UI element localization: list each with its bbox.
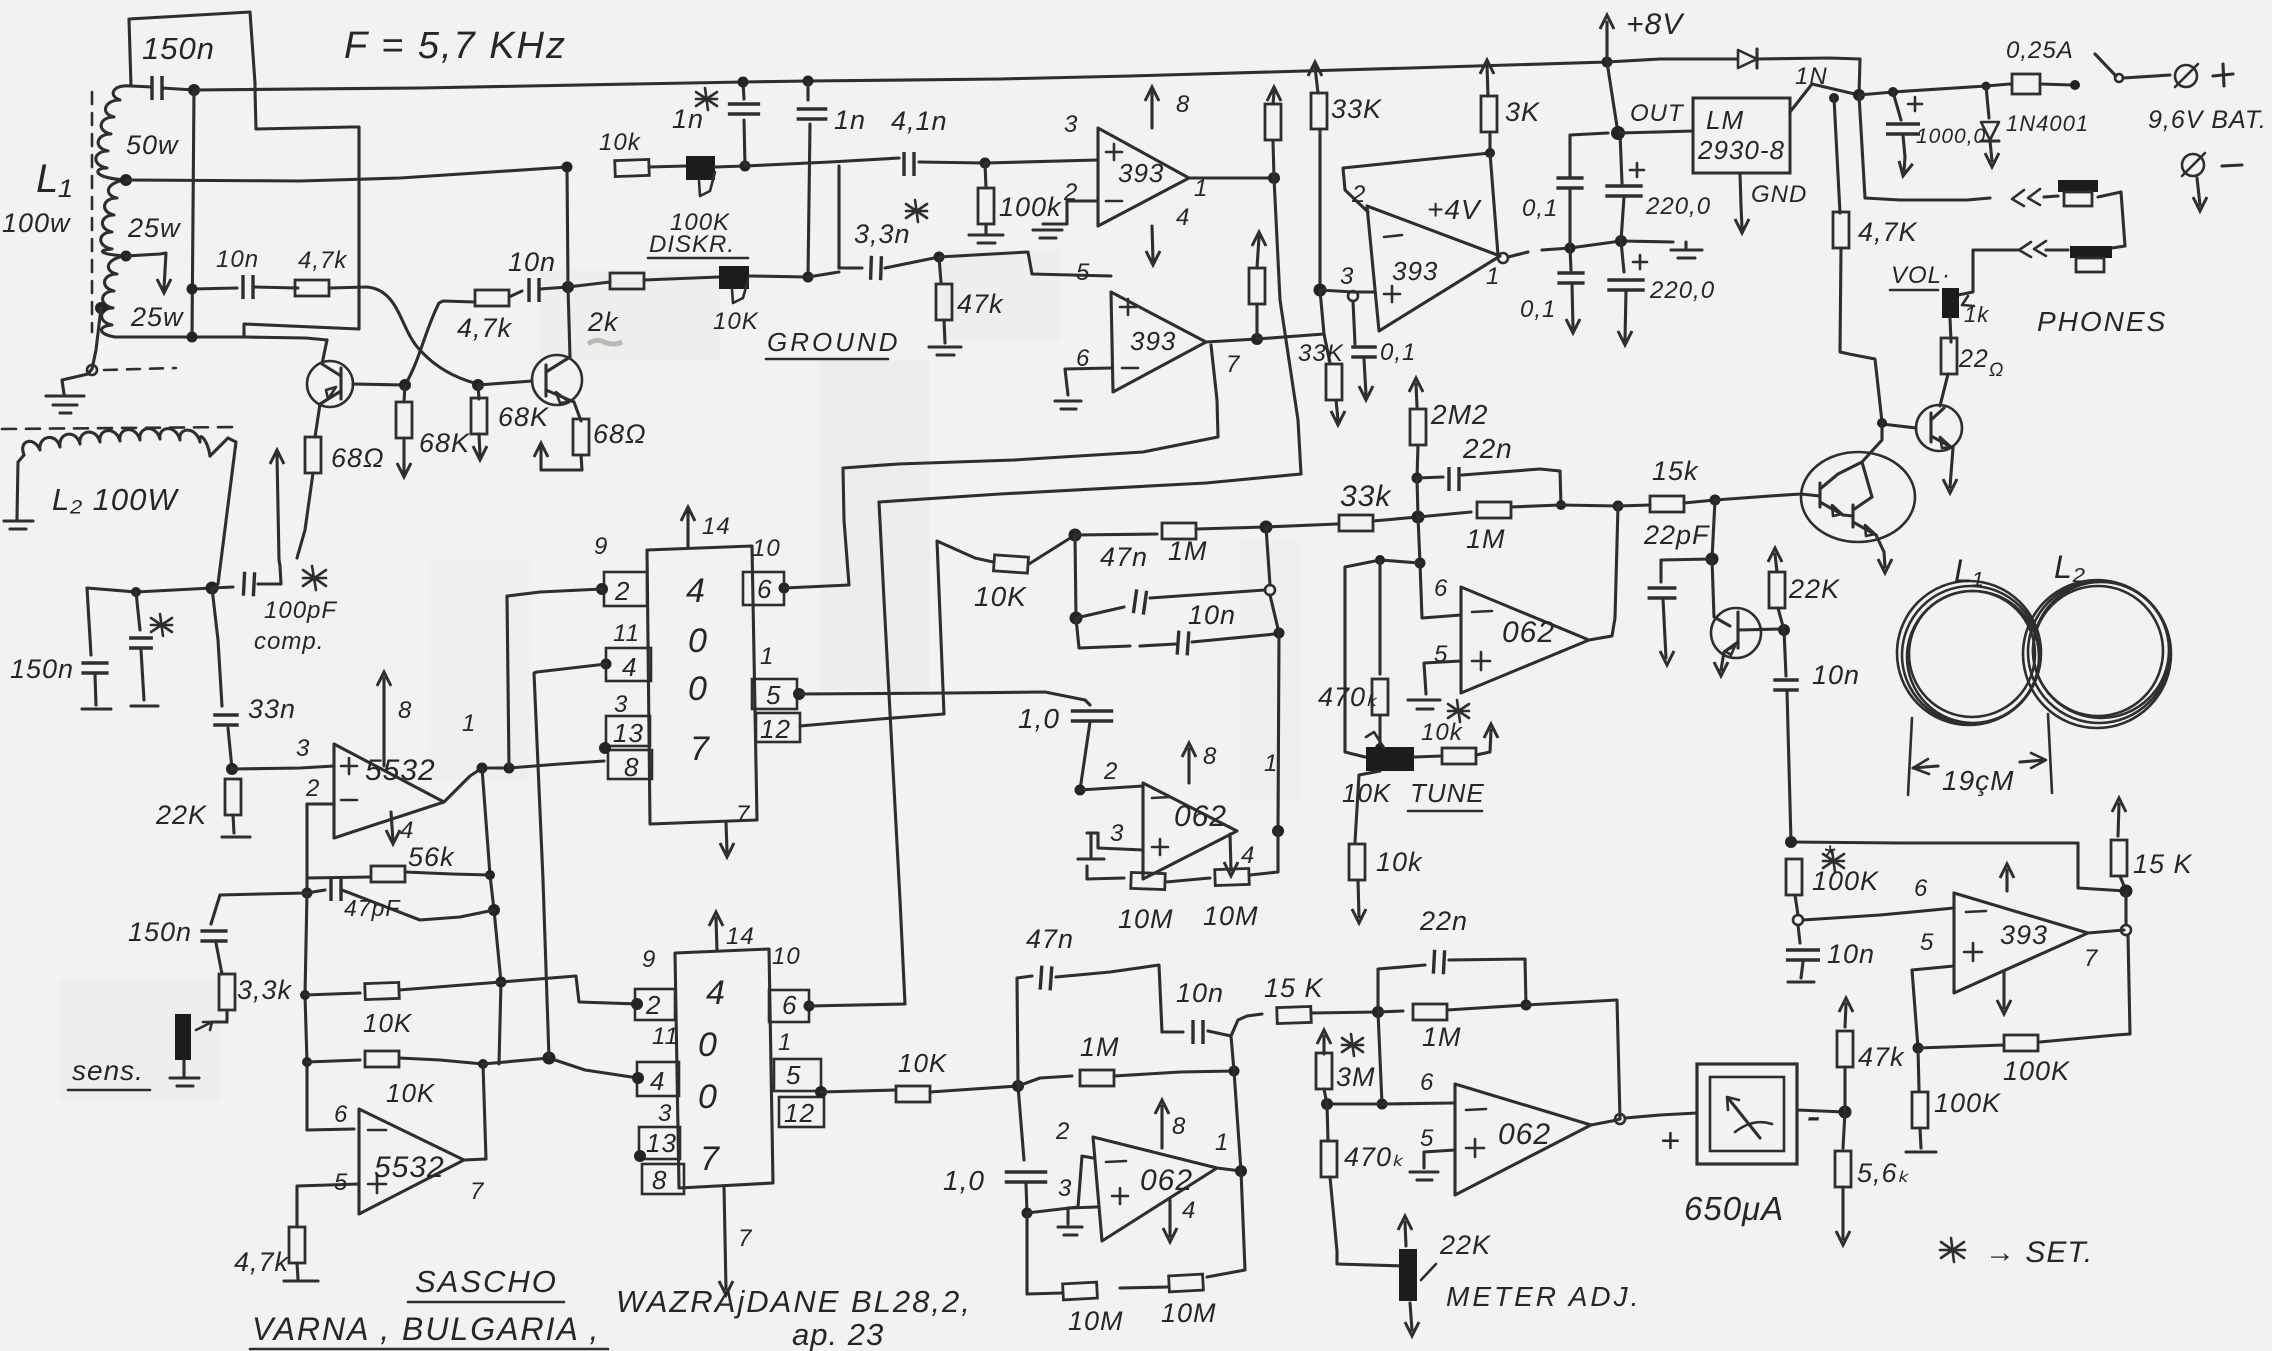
svg-text:7: 7 — [470, 1178, 485, 1205]
wire 3,3n row to U2 +in — [939, 252, 1111, 276]
svg-text:2: 2 — [1055, 1118, 1070, 1145]
resistor 470K (meter path) — [1321, 1104, 1403, 1266]
node coil lower tap — [95, 302, 107, 314]
op-amp U2 393 — [1111, 292, 1206, 392]
svg-text:100pF: 100pF — [264, 597, 337, 624]
wire 10K to node — [930, 1086, 1018, 1092]
svg-text:5: 5 — [334, 1169, 348, 1196]
svg-text:100K: 100K — [1934, 1088, 2001, 1118]
svg-text:22pF: 22pF — [1643, 520, 1710, 550]
capacitor 10n (bottom cell) — [1162, 1020, 1231, 1044]
wire Q2 node down to Q2 — [568, 287, 570, 357]
svg-text:5532: 5532 — [374, 1151, 445, 1184]
svg-text:3: 3 — [1110, 820, 1124, 847]
potentiometer VOL 1k — [1942, 288, 1974, 342]
svg-text:6: 6 — [1434, 575, 1448, 602]
svg-text:6: 6 — [782, 990, 797, 1020]
op-amp 062 (third) — [1093, 1137, 1217, 1241]
svg-text:3: 3 — [296, 735, 310, 762]
wire 2k GROUND row — [568, 282, 610, 287]
svg-text:15 K: 15 K — [2133, 849, 2193, 879]
svg-text:3,3k: 3,3k — [237, 975, 293, 1005]
svg-text:220,0: 220,0 — [1645, 193, 1711, 220]
svg-text:68K: 68K — [498, 402, 549, 432]
wire 3K to output — [1490, 153, 1498, 255]
wire output node 393-3 — [2088, 930, 2124, 933]
svg-text:6: 6 — [1420, 1069, 1434, 1096]
resistor 10K (row 1) — [305, 982, 501, 1000]
svg-text:33K: 33K — [1331, 94, 1382, 124]
svg-text:F = 5,7 KHz: F = 5,7 KHz — [344, 25, 567, 67]
svg-text:7: 7 — [1226, 351, 1241, 378]
node 5532-1 pin3 — [226, 763, 238, 775]
393-3 pin8 arrow — [2000, 864, 2014, 891]
svg-text:393: 393 — [1392, 256, 1438, 286]
capacitor 1,0 (top cell) — [1071, 700, 1114, 796]
svg-text:68Ω: 68Ω — [593, 419, 647, 449]
svg-text:GND: GND — [1751, 181, 1807, 208]
svg-text:15 K: 15 K — [1264, 973, 1324, 1003]
wire U2 out to 33K node — [1257, 334, 1324, 339]
resistor 10k (to supply from TUNE) — [1442, 724, 1498, 764]
node Q1 base junction — [399, 379, 411, 391]
transistor Q4 — [1711, 559, 1783, 676]
wire comp row — [87, 588, 212, 592]
dimension 19cM — [1908, 714, 2052, 795]
svg-text:0: 0 — [688, 622, 708, 660]
svg-text:100K: 100K — [2003, 1056, 2070, 1086]
svg-text:14: 14 — [702, 513, 731, 540]
node IN junction — [1853, 89, 1865, 101]
svg-text:1: 1 — [1264, 750, 1278, 777]
capacitor 150n (left leg) — [81, 588, 111, 709]
wire output chain down — [482, 768, 501, 1064]
resistor 4,7K (phones bias) — [1833, 98, 1882, 422]
wire 062-4 pin6 — [1327, 1103, 1453, 1104]
resistor 3M — [1316, 1030, 1332, 1104]
node +8V junction — [1602, 57, 1613, 68]
diode 1N4001 — [1981, 86, 1999, 167]
resistor 1M (top cell) — [1075, 523, 1266, 539]
svg-text:150n: 150n — [10, 654, 74, 684]
resistor 100K* — [1786, 859, 1803, 925]
svg-text:1M: 1M — [1080, 1032, 1120, 1062]
svg-text:L₂: L₂ — [2054, 549, 2086, 585]
svg-text:062: 062 — [1502, 616, 1555, 649]
svg-text:68K: 68K — [419, 428, 470, 458]
svg-text:11: 11 — [613, 620, 640, 647]
svg-text:1000,0: 1000,0 — [1916, 125, 1986, 148]
4007-1 pin13 pin8 boxes — [599, 716, 652, 779]
wire Q1 base to node — [353, 384, 405, 385]
svg-text:19çM: 19çM — [1942, 765, 2014, 796]
resistor 33k (second stage) — [1266, 515, 1418, 531]
svg-text:9,6V BAT.: 9,6V BAT. — [2148, 106, 2267, 134]
wire 062-3 left column — [1018, 1078, 1040, 1086]
svg-text:+8V: +8V — [1626, 8, 1685, 41]
svg-text:GROUND: GROUND — [767, 327, 901, 357]
wire 5532-2 output — [464, 1159, 486, 1160]
svg-text:2k: 2k — [587, 307, 619, 337]
fuse 0,25A — [2012, 74, 2080, 94]
svg-text:6: 6 — [334, 1101, 348, 1128]
svg-text:4: 4 — [650, 1066, 665, 1096]
svg-text:47n: 47n — [1026, 924, 1074, 954]
IC 4007 (first) — [647, 507, 757, 857]
wire feedback top right (y843) — [1791, 842, 2126, 891]
capacitor 10n (meter filter) — [1786, 925, 1820, 982]
svg-text:393: 393 — [2000, 920, 2048, 950]
svg-text:1k: 1k — [1964, 302, 1989, 327]
IC 4007 (second) — [675, 912, 773, 1295]
svg-text:47k: 47k — [1858, 1042, 1905, 1072]
resistor 4,7k (first) — [254, 280, 329, 296]
svg-text:4: 4 — [686, 572, 706, 610]
svg-text:4,7k: 4,7k — [298, 247, 348, 274]
capacitor 100pF comp — [212, 566, 281, 596]
U1 pin4 arrow — [1146, 226, 1160, 265]
4007-1 pin4 box — [601, 648, 652, 681]
wire DISKR bus drop to 3,3n row — [837, 166, 840, 268]
arrow up (supply) at Q1 emitter — [270, 450, 284, 560]
svg-text:5532: 5532 — [365, 754, 436, 787]
4007-2 pin4 box — [632, 1062, 679, 1096]
wire 5532-1 output row — [444, 761, 604, 802]
wire 062-1 pin2 — [1080, 786, 1143, 790]
resistor 68K (first) — [396, 385, 412, 477]
wire tap1 bus (to 10k and DISKR) — [126, 167, 567, 181]
svg-text:22n: 22n — [1419, 906, 1468, 936]
capacitor 1000,0 — [1886, 92, 1922, 177]
transistor Q1 — [307, 340, 353, 437]
svg-text:4: 4 — [1176, 204, 1190, 231]
wire 062-3 pin2 — [1027, 1156, 1093, 1213]
svg-text:100k: 100k — [999, 192, 1062, 222]
node Q4 base / 22K — [1778, 624, 1790, 636]
capacitor 1n* — [728, 82, 760, 166]
capacitor 22pF — [1648, 559, 1712, 665]
svg-text:7: 7 — [736, 801, 751, 828]
svg-text:6: 6 — [1914, 875, 1928, 902]
chevrons phones 1 — [2012, 189, 2040, 206]
svg-text:6: 6 — [1076, 345, 1090, 372]
svg-text:→ SET.: → SET. — [1985, 1236, 2093, 1269]
svg-text:4: 4 — [1241, 842, 1255, 869]
resistor 33K (top, to supply) — [1308, 62, 1327, 290]
wire pin2 feedback — [1343, 153, 1490, 212]
phone plug 2 — [2046, 246, 2112, 272]
star mark near 10k — [1448, 700, 1469, 722]
svg-text:METER ADJ.: METER ADJ. — [1446, 1281, 1641, 1312]
svg-text:4: 4 — [622, 652, 637, 682]
svg-text:4,7k: 4,7k — [234, 1247, 290, 1277]
svg-text:7: 7 — [700, 1140, 720, 1178]
resistor 10K (row 2) — [307, 1051, 483, 1067]
svg-text:L₁: L₁ — [1954, 553, 1984, 589]
svg-text:14: 14 — [726, 923, 755, 950]
wire row2 to big node and 4007-2 pin4 — [483, 1058, 638, 1078]
svg-text:13: 13 — [613, 718, 644, 748]
svg-text:4: 4 — [400, 817, 414, 844]
resistors 10M 10M (062-3) — [1027, 1171, 1245, 1300]
svg-text:10n: 10n — [1188, 600, 1236, 630]
svg-text:47pF: 47pF — [344, 895, 401, 921]
svg-text:8: 8 — [624, 752, 639, 782]
svg-text:1n: 1n — [834, 105, 866, 135]
svg-text:4,1n: 4,1n — [891, 106, 948, 136]
svg-text:+: + — [1660, 1122, 1681, 1160]
wire 4007-1 pin12 to 10K — [800, 541, 993, 726]
capacitor star (trim) — [129, 592, 158, 706]
svg-text:2: 2 — [614, 576, 630, 606]
wire 062-2 output loop up — [1589, 506, 1618, 640]
wire right column to output — [1266, 527, 1279, 831]
svg-text:comp.: comp. — [254, 628, 324, 655]
svg-text:10: 10 — [752, 535, 781, 562]
svg-text:L₁: L₁ — [36, 157, 73, 201]
svg-text:0,1: 0,1 — [1520, 296, 1556, 323]
svg-text:7: 7 — [690, 730, 710, 768]
capacitor 22n (bottom) — [1378, 950, 1526, 1012]
capacitor 220,0 (upper) — [1605, 133, 1644, 241]
resistor 100k (to gnd) — [969, 163, 1003, 243]
wire to 100k node — [919, 162, 985, 163]
resistor 4,7k (5532-2 bias) — [284, 1227, 318, 1281]
node 10n tap on vertical — [187, 284, 198, 295]
wire comp row rise to supply arrow — [279, 560, 280, 566]
wire 4007-1 pin5 to 1,0 cap node — [799, 692, 1085, 700]
ground (left) — [46, 396, 84, 413]
wire 393-3 pin5 — [1912, 966, 1954, 1048]
svg-text:7: 7 — [738, 1225, 753, 1252]
wire row1 to 4007-2 pin2 — [501, 976, 637, 1004]
svg-text:0,1: 0,1 — [1522, 195, 1558, 222]
wire 5532-2 pin5 — [297, 1184, 359, 1227]
op-amp 062 (second, TUNE) — [1461, 587, 1589, 693]
star mark (comp trim) — [151, 614, 172, 636]
393-3 pin4 arrow — [1997, 971, 2011, 1014]
dashed core line — [104, 368, 176, 370]
potentiometer 10K TUNE — [1345, 567, 1442, 771]
svg-text:8: 8 — [652, 1165, 667, 1195]
U2 pin6 ground — [1055, 368, 1111, 409]
svg-text:7: 7 — [2084, 945, 2099, 972]
svg-text:+4V: +4V — [1427, 194, 1482, 225]
wire 062-4 output to meter — [1591, 1119, 1620, 1125]
svg-text:10k: 10k — [1376, 847, 1423, 877]
svg-text:PHONES: PHONES — [2037, 306, 2167, 337]
resistor 68K (second) — [471, 385, 487, 460]
node 062-1 output — [1272, 825, 1284, 837]
U1 pin2 ground — [1033, 201, 1098, 238]
svg-text:33n: 33n — [248, 694, 296, 724]
svg-text:10n: 10n — [1827, 939, 1875, 969]
op-amp +4V comparator 393 — [1367, 206, 1500, 331]
capacitor 150n (tank) — [131, 76, 194, 100]
wire meter minus to 47K node — [1797, 1110, 1845, 1112]
svg-text:4: 4 — [706, 974, 726, 1012]
svg-text:9: 9 — [642, 946, 656, 973]
svg-text:0: 0 — [688, 670, 708, 708]
svg-text:100w: 100w — [2, 208, 71, 238]
meter 650uA — [1697, 1064, 1797, 1164]
resistor 22K — [1768, 548, 1785, 630]
svg-text:3: 3 — [614, 691, 628, 718]
darlington pair — [1801, 423, 1915, 573]
resistors 10M 10M feedback — [1087, 831, 1278, 890]
op-amp 5532 (second) — [359, 1109, 464, 1214]
wire pin3 — [1320, 290, 1375, 292]
wire right column (output to 15K) — [1231, 1016, 1247, 1171]
node coil tap 1 — [120, 174, 132, 186]
wire 150n row — [220, 893, 307, 895]
wire 393-3 pin6 — [1803, 908, 1954, 920]
svg-text:1: 1 — [1194, 175, 1208, 202]
resistor 4,7k (second) — [475, 290, 509, 306]
svg-text:4: 4 — [1182, 1197, 1196, 1224]
svg-text:10M: 10M — [1068, 1306, 1124, 1336]
svg-text:50w: 50w — [126, 130, 179, 160]
wire vertical from 150n node to bottom rail — [192, 90, 194, 337]
svg-text:1,0: 1,0 — [1018, 703, 1060, 734]
capacitor 3,3n — [839, 256, 939, 280]
resistor 470K — [1372, 560, 1388, 753]
wire crossing A: 4,7k to Q2 base node — [329, 287, 478, 384]
svg-text:3,3n: 3,3n — [854, 219, 911, 249]
wire phones feed — [1859, 95, 1990, 200]
svg-text:5: 5 — [786, 1060, 801, 1090]
svg-text:10n: 10n — [508, 247, 556, 277]
svg-text:10n: 10n — [1812, 660, 1860, 690]
wire Q1 collector to bottom rail — [244, 337, 327, 340]
svg-text:47k: 47k — [957, 289, 1004, 319]
svg-text:1: 1 — [778, 1029, 792, 1056]
5532-1 pin8 arrow — [377, 672, 391, 766]
capacitor 47n (top cell) — [1070, 535, 1276, 625]
svg-text:393: 393 — [1130, 326, 1176, 356]
wire row2 down to 5532-2 output — [483, 1064, 486, 1159]
svg-text:OUT: OUT — [1630, 100, 1685, 127]
switch — [2095, 54, 2170, 82]
capacitor 10n (top cell) — [1076, 618, 1285, 655]
wire 4007-2 pin6 — [809, 1004, 905, 1006]
svg-text:2: 2 — [645, 990, 661, 1020]
svg-text:13: 13 — [646, 1128, 677, 1158]
svg-text:0,1: 0,1 — [1380, 339, 1416, 366]
resistor 2M2 — [1409, 378, 1426, 478]
potentiometer 22K METER ADJ — [1398, 1216, 1436, 1336]
capacitor 1,0 (bottom cell) — [1005, 1086, 1048, 1219]
svg-text:25w: 25w — [130, 302, 184, 332]
wire pin2 column down to 10k rows — [305, 893, 354, 1130]
op-amp 5532 (first) — [334, 744, 444, 838]
potentiometer 100K DISKR — [649, 156, 745, 196]
star mark 100K — [1823, 850, 1844, 872]
wire Q2 base — [478, 381, 532, 385]
wire 4007-2 pin5/12 to 10K — [821, 1090, 896, 1092]
svg-text:22n: 22n — [1462, 433, 1513, 464]
resistor 1M (second stage) — [1418, 502, 1561, 518]
capacitor 220,0 (lower) — [1607, 241, 1647, 345]
svg-text:10K: 10K — [898, 1048, 948, 1078]
svg-text:22K: 22K — [1439, 1230, 1491, 1260]
wire phones return to VOL — [1958, 250, 2019, 295]
wire output up to 4007-1 pin2 — [507, 589, 602, 768]
svg-text:SASCHO: SASCHO — [415, 1264, 558, 1299]
star mark 100pF — [303, 566, 326, 590]
wire U2 output — [1206, 339, 1257, 342]
wire 10K to node — [1029, 535, 1075, 564]
capacitor 0,1 (lower) — [1557, 248, 1584, 333]
chevrons phones 2 — [2019, 241, 2046, 257]
ground right of 220,0 — [1671, 242, 1702, 258]
svg-text:5: 5 — [1920, 929, 1934, 956]
resistor pullup U2 — [1249, 232, 1266, 339]
resistor 3,3k — [219, 974, 235, 1022]
transistor Q2 — [532, 355, 582, 421]
+8V arrow — [1600, 15, 1614, 62]
svg-text:0: 0 — [698, 1078, 718, 1116]
svg-text:4,7k: 4,7k — [457, 313, 513, 343]
svg-text:11: 11 — [652, 1023, 679, 1050]
svg-text:-: - — [1806, 1092, 1821, 1139]
resistor 1M (062-3) — [1040, 1066, 1240, 1087]
resistor 10k (DISKR series) — [615, 159, 650, 176]
capacitor 10n (Q4 emitter chain) — [1773, 630, 1799, 842]
svg-text:33k: 33k — [1340, 480, 1392, 513]
op-amp 062 (fourth) — [1455, 1084, 1591, 1195]
wire DISKR bus down to Q2 node — [567, 167, 568, 287]
svg-text:10k: 10k — [599, 129, 642, 156]
capacitor 47n (bottom cell) — [1017, 965, 1162, 1086]
svg-text:12: 12 — [784, 1098, 815, 1128]
svg-text:1N4001: 1N4001 — [2006, 111, 2089, 136]
wire tap2 with down arrow — [126, 253, 171, 293]
svg-text:470ₖ: 470ₖ — [1318, 682, 1379, 712]
coil L2 100W — [2, 427, 238, 529]
resistor 10K (top cell series) — [993, 555, 1028, 573]
5532-1 pin4 arrow — [386, 812, 400, 844]
svg-text:062: 062 — [1174, 800, 1227, 833]
svg-text:10k: 10k — [1421, 719, 1464, 746]
op-amp 062 (first) — [1143, 783, 1237, 879]
resistor 47k (to gnd) — [929, 257, 961, 355]
resistor 100K feedback (393-3) — [1918, 935, 2130, 1051]
node ring on dashed axis — [87, 365, 97, 375]
svg-text:22K: 22K — [1788, 574, 1840, 604]
svg-text:47n: 47n — [1100, 542, 1148, 572]
resistor 100K (to gnd) — [1906, 1048, 1936, 1152]
svg-text:2: 2 — [1103, 758, 1118, 785]
svg-text:WAZRAjDANE BL28,2,: WAZRAjDANE BL28,2, — [616, 1284, 972, 1319]
svg-text:8: 8 — [1172, 1113, 1186, 1140]
svg-text:3: 3 — [1064, 111, 1078, 138]
op-amp U1 393 — [1098, 128, 1189, 226]
wire to 3,3n row — [808, 272, 839, 277]
search coil L2 (drawn) — [2023, 580, 2171, 728]
svg-text:10K: 10K — [386, 1078, 436, 1108]
wire to ground from lower tap — [62, 308, 101, 394]
label SET note — [1940, 1238, 1965, 1262]
search coil L1 (drawn) — [1897, 581, 2041, 725]
svg-text:5,6ₖ: 5,6ₖ — [1857, 1158, 1910, 1188]
svg-text:2930-8: 2930-8 — [1697, 135, 1785, 165]
resistor 22K (5532 input) — [222, 779, 250, 837]
062-1 pin4 arrow — [1224, 834, 1238, 876]
svg-text:8: 8 — [398, 697, 412, 724]
capacitor 47pF feedback — [302, 877, 495, 920]
wire 062-4 pin5 ground — [1410, 1150, 1455, 1180]
